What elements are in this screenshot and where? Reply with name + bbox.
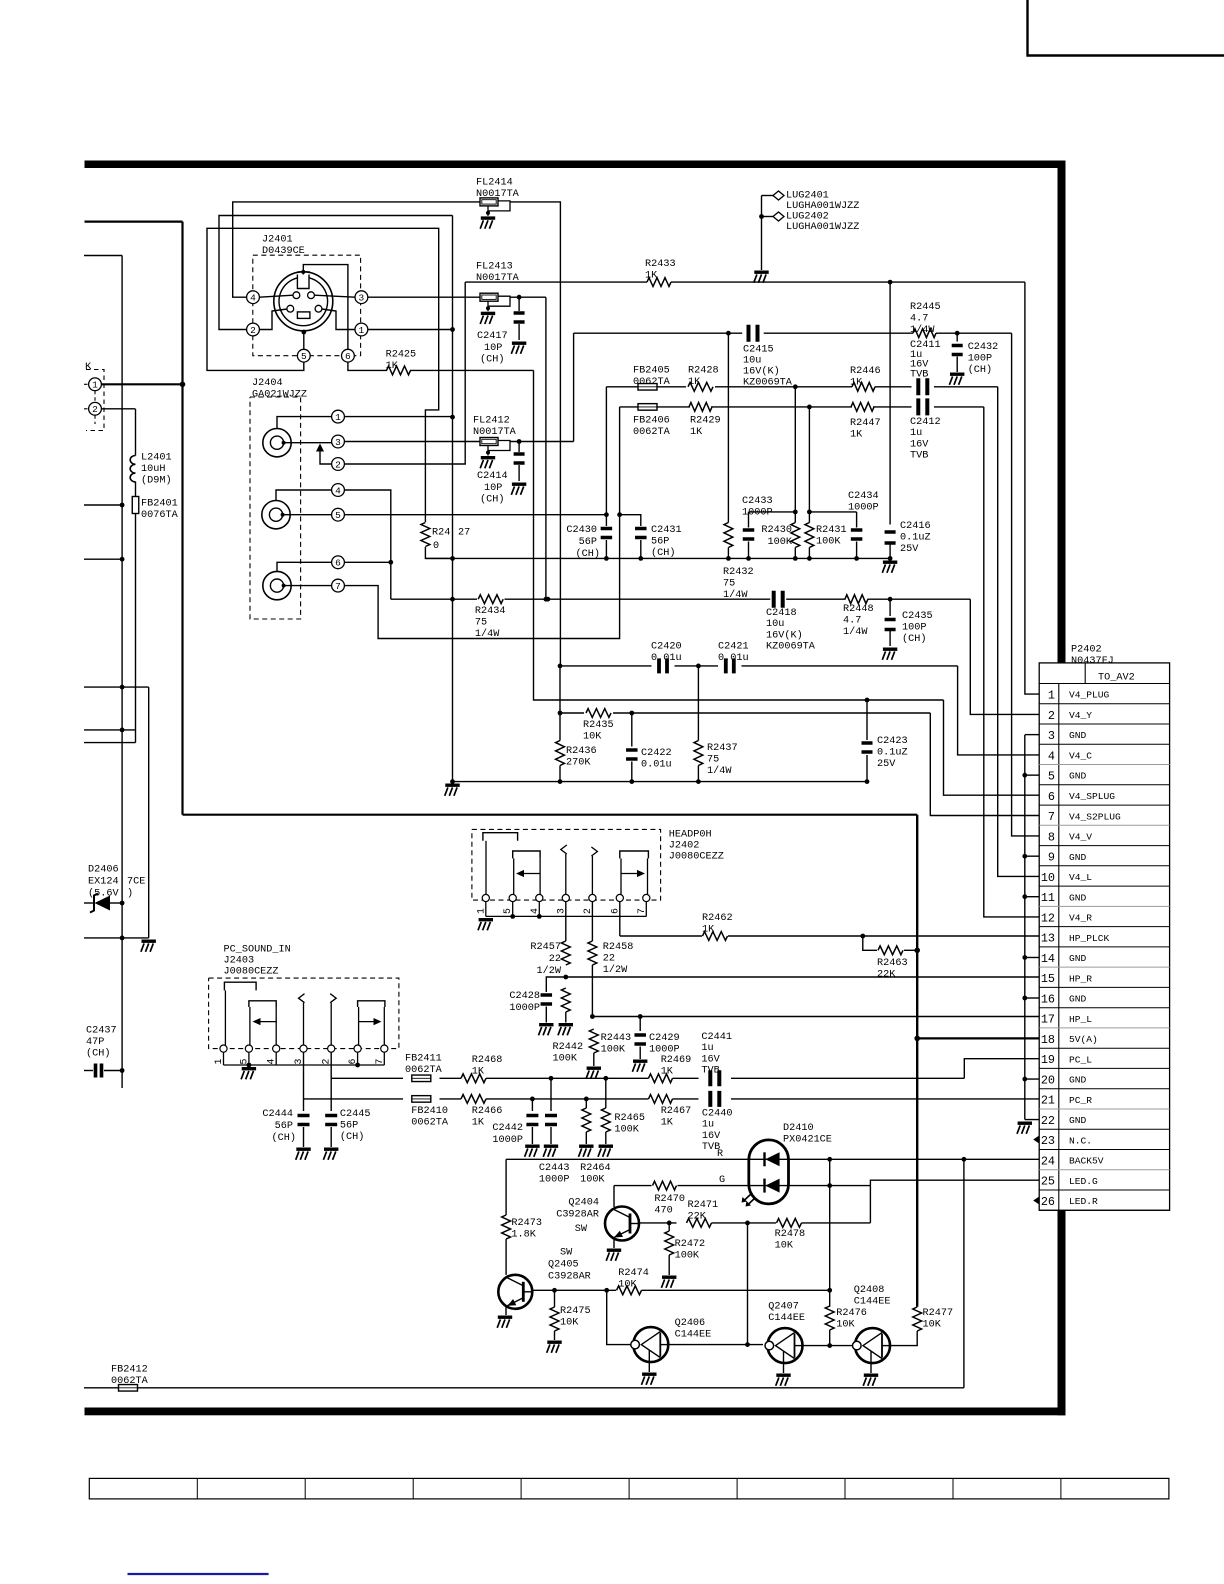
svg-text:R2475: R2475 [560,1306,591,1317]
J2403 contact flag 1 [224,982,256,990]
RCA jack 1 of J2404 [263,429,291,457]
svg-text:9: 9 [1048,851,1055,865]
connector J2401 pin 2 [247,323,260,336]
svg-text:D2406: D2406 [88,865,119,876]
wire J2402 pin3 to R2457 [565,902,567,929]
svg-text:2: 2 [335,459,341,470]
svg-text:4: 4 [529,908,540,914]
svg-text:C2444: C2444 [262,1109,293,1120]
svg-text:C144EE: C144EE [675,1330,712,1341]
resistor R2473 [502,1215,511,1239]
svg-text:(5.6V: (5.6V [88,888,119,900]
svg-text:C2437: C2437 [86,1026,117,1037]
svg-text:C2440: C2440 [702,1109,733,1120]
svg-text:1u: 1u [701,1043,713,1054]
svg-text:PC_SOUND_IN: PC_SOUND_IN [224,945,291,956]
svg-text:R2447: R2447 [850,418,881,429]
svg-text:2: 2 [321,1059,332,1065]
wire stub y=559.2 [84,558,122,560]
wire PC_L line y=1078.3 [331,1077,403,1079]
svg-text:LED.R: LED.R [1069,1196,1098,1207]
capacitor C2416 branch from plug line [888,280,893,285]
svg-text:FL2412: FL2412 [473,416,510,427]
svg-text:HP_L: HP_L [1069,1014,1092,1025]
svg-text:V4_Y: V4_Y [1069,710,1092,721]
svg-text:270K: 270K [566,758,591,769]
svg-text:FB2412: FB2412 [111,1365,148,1376]
wire Q2406 base feed [607,1290,635,1344]
svg-text:1/4W: 1/4W [910,324,935,336]
svg-text:J2402: J2402 [669,841,700,852]
connector J2404 pin 5 [332,508,345,521]
svg-text:1K: 1K [386,361,399,372]
svg-text:BACK5V: BACK5V [1069,1156,1104,1167]
wire R2435 line y=713 [560,712,584,714]
RCA jack 3 of J2404 [263,571,291,599]
svg-text:PX0421CE: PX0421CE [783,1135,832,1146]
svg-text:1K: 1K [850,378,863,389]
LED emission arrows [743,1194,756,1206]
svg-text:Q2408: Q2408 [854,1285,885,1296]
svg-text:100K: 100K [553,1054,578,1065]
svg-text:100K: 100K [768,537,793,548]
resistor R2428 [688,382,713,391]
svg-text:1000P: 1000P [742,508,773,519]
svg-text:75: 75 [707,755,719,766]
connector J2404 pin 7 [332,579,345,592]
svg-text:C2432: C2432 [968,342,999,353]
wire vertical x=148.7 [148,687,150,938]
wire V4_Y down to pin2 [970,599,1039,714]
connector J2401 pin 1 [355,323,368,336]
svg-text:FB2410: FB2410 [411,1106,448,1117]
zener diode D2406 stub [84,902,94,904]
svg-text:(CH): (CH) [340,1131,364,1143]
wire Q2405 emitter ground [505,1307,507,1315]
svg-text:R2457: R2457 [530,942,561,953]
svg-text:R2429: R2429 [690,416,721,427]
svg-text:16V: 16V [702,1131,721,1142]
svg-text:3: 3 [1048,729,1055,743]
capacitor C2415 series [749,325,758,342]
svg-text:21: 21 [1041,1094,1055,1108]
svg-text:C2420: C2420 [651,642,682,653]
J2403 contact flag 2 with arrow [249,1001,276,1007]
resistor R2427 [421,523,430,547]
bold 5V route vertical x=917.2 [916,815,918,1307]
ferrite bead FB2401 [132,497,139,514]
svg-text:R2462: R2462 [702,913,733,924]
svg-text:75: 75 [723,579,735,590]
wire chroma line y=333.2 [574,332,743,334]
resistor R2466 [461,1095,486,1104]
svg-text:1K: 1K [850,430,863,441]
svg-text:1/4W: 1/4W [707,765,732,777]
mini-DIN pins [293,292,300,299]
svg-text:1/2W: 1/2W [537,965,562,977]
svg-text:TO_AV2: TO_AV2 [1098,673,1135,684]
svg-text:5: 5 [301,351,307,362]
capacitor C2430 [605,515,607,526]
svg-text:100P: 100P [968,354,992,365]
svg-text:5: 5 [335,510,341,521]
wire V4_S2PLUG riser to pin7 [930,713,1039,816]
wire R2474 line [555,1289,617,1291]
svg-text:LED.G: LED.G [1069,1176,1098,1187]
svg-text:(CH): (CH) [480,354,504,366]
svg-text:(CH): (CH) [902,633,926,645]
svg-text:100P: 100P [902,623,926,634]
connector J2404 pin 3 [332,435,345,448]
svg-text:100K: 100K [601,1045,626,1056]
svg-text:1K: 1K [645,271,658,282]
transistor Q2408 [855,1328,890,1363]
svg-text:GND: GND [1069,1075,1087,1086]
svg-text:3: 3 [335,437,341,448]
svg-text:15: 15 [1041,972,1055,986]
resistor R2432 branch [727,333,729,522]
svg-text:GND: GND [1069,852,1087,863]
wire V4_L down to pin10 [998,387,1039,877]
svg-text:10P: 10P [484,343,502,354]
svg-text:GND: GND [1069,994,1087,1005]
svg-text:GA021WJZZ: GA021WJZZ [252,390,307,401]
svg-text:1K: 1K [688,377,701,388]
svg-text:C144EE: C144EE [768,1313,805,1324]
svg-text:FB2406: FB2406 [633,416,670,427]
wire stub y=255.5 to x=122 corner [84,255,122,257]
bold 5V stub to pin18 [917,1037,1039,1039]
svg-text:22: 22 [549,954,561,965]
wire x=606.4 up to audio L line [605,387,607,515]
svg-text:HP_PLCK: HP_PLCK [1069,933,1110,944]
capacitor C2411 series [918,378,927,395]
svg-text:V4_S2PLUG: V4_S2PLUG [1069,811,1121,822]
svg-text:0.1uZ: 0.1uZ [900,533,931,544]
svg-text:4.7: 4.7 [910,314,928,325]
svg-text:7: 7 [1048,810,1055,824]
svg-text:R2432: R2432 [723,567,754,578]
svg-text:1: 1 [475,908,486,914]
svg-text:GND: GND [1069,892,1087,903]
svg-text:V4_C: V4_C [1069,750,1092,761]
LED diode G [749,1185,789,1187]
svg-text:1/4W: 1/4W [475,628,500,640]
capacitor C2444 [303,1099,305,1111]
wire Q2406 emitter ground [648,1362,650,1372]
resistor R2472 branch [668,1223,670,1231]
svg-text:16V(K): 16V(K) [743,366,780,378]
svg-text:0062TA: 0062TA [633,427,671,438]
svg-text:1: 1 [359,325,365,336]
wire SPLUG down to pin6 [944,700,1040,795]
wire J2402 pin6 to HP_PLCK [619,902,621,936]
svg-text:PC_L: PC_L [1069,1054,1092,1065]
wire Q2407 emitter ground [783,1363,785,1373]
wire HP_PLCK line [620,935,702,937]
svg-text:R2442: R2442 [553,1042,584,1053]
svg-text:N0017TA: N0017TA [473,427,517,438]
resistor R2468 [461,1074,486,1083]
svg-text:LUG2402: LUG2402 [786,212,829,223]
svg-text:1.8K: 1.8K [511,1230,536,1241]
wire chroma riser x=573.6 [573,333,575,441]
mini-DIN body J2401 [274,272,333,331]
ground at bottom of x=452.5 [445,784,459,787]
capacitor C2422 [631,713,633,747]
svg-text:N0017TA: N0017TA [476,189,520,200]
svg-text:R2472: R2472 [675,1239,706,1250]
J2402 pin circles [482,894,489,901]
J2402 contact 3 chevron [561,845,567,854]
wire Q2406 collector to Q2407 [669,1344,764,1346]
svg-text:J0080CEZZ: J0080CEZZ [224,967,279,978]
svg-text:26: 26 [1041,1195,1055,1209]
svg-text:C2445: C2445 [340,1109,371,1120]
svg-text:5: 5 [1048,770,1055,784]
svg-text:R2446: R2446 [850,366,881,377]
svg-text:6: 6 [335,558,341,569]
svg-text:P2402: P2402 [1071,645,1102,656]
wire x=560 down to R2436 [559,666,561,741]
transistor Q2405 [498,1275,532,1309]
wire Q2407 feed from base node [747,1223,749,1345]
resistor R2471 [687,1219,712,1228]
svg-text:(CH): (CH) [86,1048,110,1060]
svg-text:14: 14 [1041,952,1055,966]
connector J2402 dashed outline [472,829,661,900]
wire G to pin25 via jog [789,1185,871,1187]
wire R2430 branch [794,387,796,523]
resistor R2465 [605,1078,607,1108]
ferrite bead FB2411 [412,1075,431,1082]
wire J2401 pin3 to FL2413 [368,296,480,298]
svg-text:10K: 10K [775,1241,794,1252]
svg-text:R24: R24 [432,528,450,539]
wire BACK5V riser to bottom return [963,1159,965,1388]
connector P2402 table outline [1039,663,1169,1210]
wire LED G line [614,1185,652,1187]
inductor L2401 [130,456,135,482]
svg-text:4: 4 [250,293,256,304]
svg-text:0.1uZ: 0.1uZ [877,748,908,759]
svg-text:16: 16 [1041,992,1055,1006]
svg-text:Q2407: Q2407 [768,1302,799,1313]
svg-text:0062TA: 0062TA [111,1376,149,1387]
svg-text:TVB: TVB [701,1066,719,1077]
wire FL2414 out down x=560.4 [510,202,560,666]
svg-text:1K: 1K [472,1067,485,1078]
border frame bottom bar [85,1408,1066,1416]
svg-text:1000P: 1000P [848,503,879,514]
capacitor C2441 series [710,1070,719,1086]
svg-text:100K: 100K [580,1175,605,1186]
capacitor C2423 branch [866,700,868,740]
RCA jack 2 of J2404 [262,501,290,529]
svg-text:10uH: 10uH [141,464,165,475]
wire ground line y=558.4 [425,557,890,559]
capacitor C2434 [809,511,856,513]
svg-text:13: 13 [1041,932,1055,946]
svg-text:V4_V: V4_V [1069,832,1092,843]
svg-text:(CH): (CH) [480,494,504,506]
svg-text:D2410: D2410 [783,1123,814,1134]
svg-text:C3928AR: C3928AR [556,1210,599,1221]
svg-text:100K: 100K [816,537,841,548]
LED diode R [749,1158,789,1160]
svg-text:3: 3 [555,908,566,914]
svg-text:11: 11 [1041,891,1055,905]
svg-text:7: 7 [335,581,341,592]
svg-text:1000P: 1000P [649,1045,680,1056]
pin23 N.C. tick [1033,1136,1039,1144]
resistor R2433 [647,278,671,287]
capacitor C2433 [749,511,796,513]
svg-text:10K: 10K [618,1280,637,1291]
svg-text:1: 1 [335,412,341,423]
svg-text:(CH): (CH) [651,547,675,559]
svg-text:4: 4 [335,485,341,496]
LED D2410 body [749,1140,789,1204]
svg-text:6: 6 [345,351,351,362]
J2401 internal pin wires [259,295,293,297]
svg-text:2: 2 [582,908,593,914]
svg-text:(CH): (CH) [968,364,992,376]
capacitor C2431 link [620,515,641,526]
wire audio R line y=406.9 [620,406,638,408]
svg-text:R2468: R2468 [472,1055,503,1066]
svg-text:10P: 10P [484,483,502,494]
connector J2401 pin 4 [247,291,260,304]
wire Q2408 collector to R2477 [890,1331,917,1346]
capacitor C2435 branch [889,599,891,616]
resistor R2462 [703,932,728,941]
wire J2404 pin4 to Y line [344,490,390,599]
resistor R2467 [649,1095,673,1104]
capacitor C2432 branch [956,333,958,341]
ground under lugs [754,271,768,274]
resistor R2447 [851,403,874,412]
transistor Q2407 [768,1328,803,1363]
capacitor C2437 stub [84,1070,93,1072]
J2402 shield bus [486,915,647,917]
J2403 pin circles [220,1045,227,1052]
wire to lugs [762,195,774,197]
svg-text:EX124: EX124 [88,877,119,888]
svg-text:25: 25 [1041,1175,1055,1189]
svg-text:V4_SPLUG: V4_SPLUG [1069,791,1115,802]
wire LED right side to R2476 column [829,1159,831,1307]
svg-text:C2428: C2428 [509,991,540,1002]
svg-text:56P: 56P [651,537,669,548]
ground J2403 bus [242,1067,256,1070]
wire Q2404 base line [639,1222,677,1224]
wire FL2412 out to chroma riser [510,441,574,443]
blue footer line [128,1573,269,1575]
pin26 tick [1033,1197,1039,1205]
connector J2401 pin 3 [355,291,368,304]
wire J2401 pin4 to FL2414 route [233,202,480,297]
svg-text:R2478: R2478 [775,1229,806,1240]
svg-text:D0439CE: D0439CE [262,246,305,257]
svg-text:2: 2 [1048,709,1055,723]
svg-text:18: 18 [1041,1033,1055,1047]
capacitor C2414 branch [518,442,520,453]
svg-text:Q2406: Q2406 [675,1318,706,1329]
capacitor C2440 series [710,1091,719,1107]
connector K pin 1 [89,378,102,391]
svg-text:(D9M): (D9M) [141,475,172,487]
svg-text:R: R [717,1149,723,1160]
svg-text:TVB: TVB [910,369,928,380]
wire J2404 pin4 shield [276,490,332,500]
wire HP_R line y=977 [546,977,566,992]
capacitor C2442 [531,1099,533,1111]
svg-text:56P: 56P [579,537,597,548]
svg-text:C2416: C2416 [900,521,931,532]
svg-text:10K: 10K [836,1320,855,1331]
wire V4_V down to pin8 [1012,333,1040,836]
svg-text:FB2401: FB2401 [141,499,178,510]
capacitor C2418 series [774,591,783,608]
capacitor C2428 [541,995,553,1004]
wire J2401 pin6 through R2425 [348,362,387,370]
wire PC_L jog to pin19 [964,1059,1039,1079]
wire R2427 bottom to gnd line [425,547,452,558]
wire GND bus x=1024.8 [1024,735,1026,1120]
wire C2420 line y=665.9 [560,665,652,667]
resistor R2437 branch [697,666,699,741]
zener diode D2406 [95,896,111,911]
J2402 contact flag 2 with arrow [513,851,540,858]
svg-text:LUGHA001WJZZ: LUGHA001WJZZ [786,201,859,212]
resistor R2476 [825,1306,834,1330]
wire stub y=687 continuing to x=148.7 [84,686,149,688]
svg-text:0.01u: 0.01u [641,760,672,771]
svg-text:8: 8 [1048,830,1055,844]
wire vertical L2401/FB2401 branch x=135.5 [135,409,137,456]
svg-text:1/4W: 1/4W [843,626,868,638]
svg-text:Q2405: Q2405 [548,1260,579,1271]
svg-text:C2435: C2435 [902,611,933,622]
resistor R2446 [852,382,875,391]
svg-text:100K: 100K [614,1125,639,1136]
svg-text:16V: 16V [910,439,929,450]
resistor R2463 to 5V [863,936,877,950]
wire R2425 down x=533.5 to SPLUG line [534,370,944,700]
svg-text:6: 6 [609,908,620,914]
svg-text:1K: 1K [661,1067,674,1078]
svg-text:TVB: TVB [910,451,928,462]
svg-text:R2445: R2445 [910,302,941,313]
wire HP_L line y=1016.5 [592,1016,1039,1018]
svg-text:C2443: C2443 [539,1163,570,1174]
svg-text:R2425: R2425 [386,350,417,361]
bold 5V route top [85,221,183,223]
svg-text:1/2W: 1/2W [603,964,628,976]
svg-text:27: 27 [458,528,470,539]
J2403 contact flag 6 with arrow [358,1001,385,1007]
svg-text:4: 4 [266,1059,277,1065]
svg-text:17: 17 [1041,1013,1055,1027]
svg-text:R2473: R2473 [511,1218,542,1229]
connector J2404 pin 2 [332,458,345,471]
title block corner box top right [1028,0,1224,56]
wire J2404 pin7 [284,585,332,587]
svg-text:0: 0 [433,541,439,552]
bold 5V route vertical x=182.5 [181,222,183,815]
svg-text:R2470: R2470 [654,1194,685,1205]
